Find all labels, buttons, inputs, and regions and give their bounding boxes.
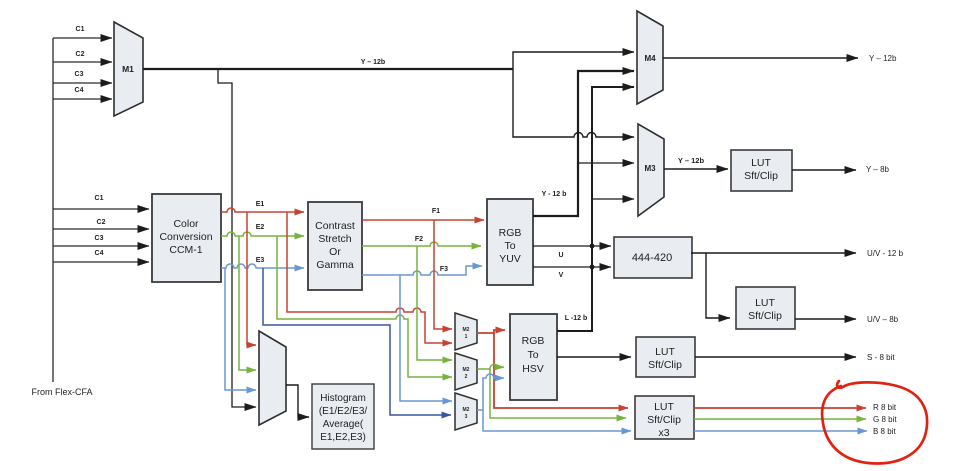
block Histogram (312, 384, 374, 449)
wire E2 green CCM to Contrast (221, 232, 304, 236)
svg-text:LUT: LUT (751, 157, 771, 169)
wire LUT Y output (792, 169, 856, 171)
wire LUT S output (695, 356, 856, 358)
svg-text:G 8 bit: G 8 bit (873, 415, 897, 424)
svg-text:YUV: YUV (499, 253, 521, 265)
wire F1 red Contrast to RGB-YUV (362, 219, 484, 221)
wire 444-420 output U/V-12b (691, 252, 856, 254)
svg-text:From Flex-CFA: From Flex-CFA (31, 387, 92, 397)
svg-text:C3: C3 (95, 235, 104, 242)
wire M2-3 branch down to LUT x3 blue input (483, 410, 631, 431)
wire riser from Y line down to M3 in1 (hops over risers) (513, 69, 634, 137)
svg-text:U: U (558, 252, 563, 259)
svg-text:LUT: LUT (654, 401, 674, 413)
wire F2 drop to M2-2 in1 (417, 246, 452, 360)
wire E2 bus down and across to M2-2 in2 (277, 236, 452, 377)
mux histogram input select (259, 331, 286, 425)
wire C2 into M1 (53, 61, 112, 63)
svg-text:Y – 12b: Y – 12b (869, 54, 897, 63)
svg-text:M2: M2 (463, 327, 470, 333)
wire F3 blue Contrast to RGB-YUV (hops, jog up) (362, 266, 482, 275)
svg-text:Y - 12 b: Y - 12 b (542, 191, 567, 198)
svg-text:E3: E3 (256, 257, 265, 264)
svg-text:HSV: HSV (522, 363, 544, 375)
wire B 8 bit output (694, 430, 867, 432)
block LUT Sft/Clip x3 (635, 396, 694, 439)
mux M2-3 (455, 393, 477, 430)
svg-text:Contrast: Contrast (315, 220, 355, 232)
wire M2-2 output into RGB-HSV green input (hop over red) (477, 364, 504, 369)
svg-text:M4: M4 (644, 54, 656, 63)
svg-text:E1,E2,E3): E1,E2,E3) (320, 432, 366, 443)
wire F1 drop to M2-1 in1 (434, 220, 452, 329)
wire histogram mux output to Histogram block (286, 385, 309, 417)
svg-text:M3: M3 (644, 164, 656, 173)
wire G 8 bit output (694, 418, 866, 420)
wire F2 green Contrast to RGB-YUV (hop over F1 drop) (362, 242, 481, 246)
wire F3 drop to M2-3 in1 (400, 275, 452, 401)
wire M2-3 output up into RGB-HSV blue input (477, 374, 504, 410)
wire branch from L riser to M3 in3 (592, 198, 634, 200)
wire V from YUV to 444-420 (533, 266, 611, 268)
mux M1 (114, 22, 143, 116)
svg-text:C4: C4 (95, 250, 104, 257)
svg-text:Y – 8b: Y – 8b (866, 165, 890, 174)
wire E1 red CCM to Contrast (221, 208, 304, 212)
svg-text:x3: x3 (658, 427, 669, 439)
wire From Flex-CFA vertical trunk (52, 38, 54, 382)
svg-text:Y – 12b: Y – 12b (678, 156, 705, 165)
wire R 8 bit output (694, 407, 866, 409)
svg-text:Sft/Clip: Sft/Clip (647, 414, 681, 426)
node junction dot U / L riser (590, 244, 595, 249)
svg-text:(E1/E2/E3/: (E1/E2/E3/ (319, 406, 368, 417)
wire C3 into M1 (53, 82, 112, 84)
svg-text:CCM-1: CCM-1 (169, 244, 202, 256)
wire C3 into CCM-1 (53, 245, 149, 247)
mux M3 (638, 124, 664, 216)
wire M2-1 branch down to LUT x3 red input (494, 333, 628, 408)
wire E3 drop to histogram mux blue input (225, 268, 256, 390)
svg-text:RGB: RGB (499, 227, 522, 239)
wire C1 into M1 (53, 37, 112, 39)
svg-text:Sft/Clip: Sft/Clip (744, 170, 778, 182)
svg-text:1: 1 (465, 334, 468, 340)
svg-text:B 8 bit: B 8 bit (873, 427, 896, 436)
block LUT Sft/Clip (Y) (731, 150, 792, 191)
svg-text:F1: F1 (432, 208, 440, 215)
svg-text:F2: F2 (415, 236, 423, 243)
svg-text:Sft/Clip: Sft/Clip (748, 310, 782, 322)
svg-text:444-420: 444-420 (632, 252, 672, 264)
svg-text:LUT: LUT (755, 297, 775, 309)
wire S from HSV to LUT Sft/Clip (557, 356, 631, 358)
wire L-12b from HSV up riser to M4 in3 (557, 87, 634, 331)
block LUT Sft/Clip (S) (636, 337, 695, 377)
svg-text:Average(: Average( (323, 419, 364, 430)
svg-text:L -12 b: L -12 b (565, 315, 587, 322)
mux M2-2 (455, 353, 477, 390)
wire LUT U/V output (795, 318, 856, 320)
block Color Conversion CCM-1 (152, 194, 221, 282)
svg-text:Gamma: Gamma (316, 259, 354, 271)
svg-text:M2: M2 (463, 407, 470, 413)
svg-text:Or: Or (329, 246, 341, 258)
svg-text:U/V – 8b: U/V – 8b (867, 315, 899, 324)
svg-text:C1: C1 (95, 195, 104, 202)
decoration hand-drawn red ellipse around RGB outputs (822, 381, 927, 463)
svg-text:C4: C4 (75, 87, 84, 94)
svg-text:To: To (527, 349, 538, 361)
wire C1 into CCM-1 (53, 208, 149, 210)
svg-text:C2: C2 (97, 219, 106, 226)
svg-text:Y – 12b: Y – 12b (361, 59, 385, 66)
mux M2-1 (455, 313, 477, 350)
svg-text:Histogram: Histogram (320, 393, 366, 404)
svg-text:LUT: LUT (655, 346, 675, 358)
svg-text:Stretch: Stretch (318, 233, 351, 245)
wire C4 into M1 (53, 98, 112, 100)
wire M3 output to LUT (664, 168, 728, 170)
svg-text:M1: M1 (122, 64, 134, 74)
svg-text:Conversion: Conversion (159, 231, 212, 243)
svg-text:Color: Color (173, 218, 199, 230)
block 444-420 (614, 237, 692, 278)
svg-text:C1: C1 (76, 26, 85, 33)
svg-text:2: 2 (465, 374, 468, 380)
node junction dot V / L riser (590, 265, 595, 270)
svg-text:E1: E1 (256, 201, 265, 208)
wire E1 bus down and across to M2-1 in2 (287, 212, 452, 343)
wire Y-12b main from M1 to riser (143, 68, 513, 70)
wire M2-2 branch down to LUT x3 green input (490, 369, 626, 418)
wire Y-12b from YUV up riser to M4 in2 (533, 71, 634, 216)
mux M4 (637, 11, 663, 104)
svg-text:R 8 bit: R 8 bit (873, 403, 897, 412)
wire Y branch jog down to histogram mux (218, 69, 256, 407)
svg-text:3: 3 (465, 414, 468, 420)
wire C4 into CCM-1 (53, 261, 149, 263)
block Contrast Stretch Or Gamma (308, 202, 362, 290)
svg-text:To: To (504, 240, 515, 252)
svg-text:C2: C2 (76, 51, 85, 58)
svg-text:S - 8 bit: S - 8 bit (867, 353, 895, 362)
svg-text:C3: C3 (75, 71, 84, 78)
wire E1 drop to histogram mux red input (247, 212, 256, 345)
svg-text:V: V (559, 272, 564, 279)
svg-text:M2: M2 (463, 367, 470, 373)
svg-text:U/V - 12 b: U/V - 12 b (867, 249, 904, 258)
block RGB To YUV (487, 199, 533, 285)
wire E3 bus down and across to M2-3 in2 (dark blue) (263, 268, 451, 415)
wire E3 blue CCM to Contrast (221, 264, 304, 268)
wire riser from Y line up to M4 in1 (513, 52, 634, 69)
svg-text:Sft/Clip: Sft/Clip (648, 359, 682, 371)
wire C2 into CCM-1 (53, 228, 149, 230)
wire U from YUV to 444-420 (533, 245, 611, 247)
wire branch from YUV riser to M3 in2 (578, 162, 634, 164)
wire 444-420 branch down to LUT U/V (706, 253, 730, 318)
block RGB To HSV (510, 314, 557, 400)
wire E2 drop to histogram mux green input (239, 236, 256, 370)
wire M2-1 output into RGB-HSV red input (477, 330, 505, 333)
svg-text:RGB: RGB (522, 335, 545, 347)
svg-text:E2: E2 (256, 224, 265, 231)
block LUT Sft/Clip (U/V) (736, 287, 795, 329)
svg-text:F3: F3 (440, 266, 448, 273)
wire M4 output Y-12b (663, 57, 858, 59)
